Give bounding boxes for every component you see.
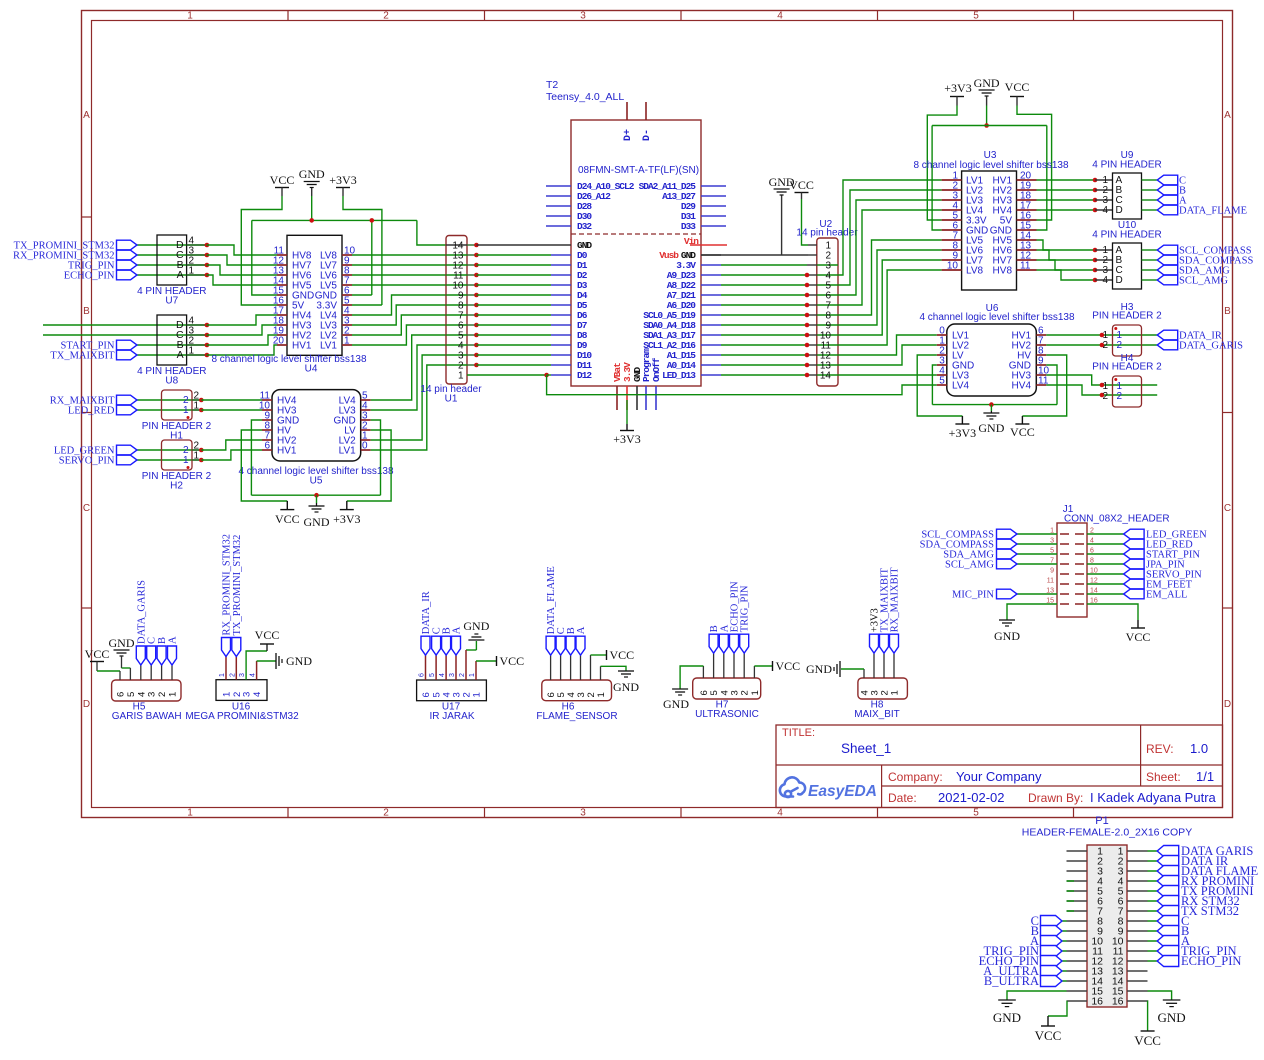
svg-text:D: D <box>1116 205 1123 216</box>
svg-text:B_ULTRA: B_ULTRA <box>984 974 1039 988</box>
svg-text:DATA_GARIS: DATA_GARIS <box>1179 341 1243 352</box>
svg-text:A: A <box>83 110 90 121</box>
svg-text:A: A <box>177 349 184 361</box>
svg-text:4: 4 <box>777 11 783 22</box>
svg-text:SERVO_PIN: SERVO_PIN <box>59 456 115 467</box>
svg-text:EM_ALL: EM_ALL <box>1146 590 1187 601</box>
svg-text:GND: GND <box>109 636 135 650</box>
svg-text:1: 1 <box>183 405 189 416</box>
svg-text:3: 3 <box>580 11 586 22</box>
svg-text:VCC: VCC <box>1005 80 1030 94</box>
svg-text:LV1: LV1 <box>320 341 337 352</box>
svg-text:VCC: VCC <box>789 178 814 192</box>
svg-text:Sheet:: Sheet: <box>1146 770 1181 784</box>
svg-text:A: A <box>576 626 587 634</box>
svg-text:DATA_IR: DATA_IR <box>421 591 432 634</box>
svg-text:3: 3 <box>449 673 456 677</box>
svg-text:LV8: LV8 <box>966 266 983 277</box>
svg-text:U1: U1 <box>445 394 458 405</box>
svg-text:20: 20 <box>273 336 285 347</box>
svg-text:LV4: LV4 <box>952 381 969 392</box>
svg-text:GARIS BAWAH: GARIS BAWAH <box>112 711 182 722</box>
svg-text:MIC_PIN: MIC_PIN <box>952 590 994 601</box>
svg-text:4: 4 <box>1102 205 1108 216</box>
svg-text:GND: GND <box>299 167 325 181</box>
svg-text:GND: GND <box>663 697 689 711</box>
svg-text:Teensy_4.0_ALL: Teensy_4.0_ALL <box>546 91 624 103</box>
svg-text:5: 5 <box>429 673 436 677</box>
svg-text:9: 9 <box>1050 568 1054 575</box>
svg-text:1/1: 1/1 <box>1196 769 1214 784</box>
svg-text:14: 14 <box>820 371 832 382</box>
svg-text:D: D <box>1224 699 1231 710</box>
svg-text:B: B <box>83 306 90 317</box>
svg-text:D33: D33 <box>681 221 696 232</box>
svg-text:LED_RED: LED_RED <box>68 406 115 417</box>
svg-text:1: 1 <box>183 455 189 466</box>
svg-text:3: 3 <box>242 692 253 697</box>
svg-text:LV1: LV1 <box>339 446 356 457</box>
svg-text:4: 4 <box>1102 275 1108 286</box>
svg-text:4 channel logic level shifter: 4 channel logic level shifter bss138 <box>919 312 1075 323</box>
svg-text:REV:: REV: <box>1146 742 1174 756</box>
svg-text:GND: GND <box>1158 1010 1186 1025</box>
svg-text:C: C <box>147 637 158 644</box>
svg-text:TRIG_PIN: TRIG_PIN <box>740 585 751 632</box>
svg-text:+3V3: +3V3 <box>949 426 976 440</box>
svg-text:11: 11 <box>1020 261 1031 272</box>
svg-text:1: 1 <box>472 692 483 697</box>
svg-text:Vusb: Vusb <box>659 250 679 261</box>
svg-text:6: 6 <box>421 692 432 697</box>
svg-text:4: 4 <box>250 673 257 677</box>
svg-text:D: D <box>1116 275 1123 286</box>
svg-text:08FMN-SMT-A-TF(LF)(SN): 08FMN-SMT-A-TF(LF)(SN) <box>578 165 699 176</box>
svg-text:Date:: Date: <box>888 791 917 805</box>
svg-text:HEADER-FEMALE-2.0_2X16 COPY: HEADER-FEMALE-2.0_2X16 COPY <box>1022 827 1192 839</box>
svg-text:2: 2 <box>1102 391 1108 402</box>
svg-text:3: 3 <box>147 692 158 697</box>
svg-text:DATA_GARIS: DATA_GARIS <box>136 580 147 644</box>
svg-text:Drawn By:: Drawn By: <box>1028 791 1083 805</box>
svg-text:4 PIN HEADER: 4 PIN HEADER <box>1092 160 1161 171</box>
svg-text:A: A <box>168 636 179 644</box>
svg-text:GND: GND <box>304 515 330 529</box>
svg-text:Your Company: Your Company <box>956 769 1042 784</box>
svg-text:D-: D- <box>642 129 653 141</box>
svg-text:Company:: Company: <box>888 770 943 784</box>
svg-text:4 PIN HEADER: 4 PIN HEADER <box>1092 230 1161 241</box>
svg-text:C: C <box>1224 503 1231 514</box>
svg-text:SCL_AMG: SCL_AMG <box>1179 276 1228 287</box>
svg-text:2: 2 <box>459 673 466 677</box>
svg-text:+3V3: +3V3 <box>329 173 356 187</box>
svg-text:HV1: HV1 <box>292 341 312 352</box>
svg-text:VCC: VCC <box>275 512 300 526</box>
svg-text:Sheet_1: Sheet_1 <box>841 741 891 756</box>
svg-text:0: 0 <box>362 441 368 452</box>
svg-text:2: 2 <box>1117 340 1123 351</box>
svg-text:1: 1 <box>458 371 464 382</box>
svg-text:TX STM32: TX STM32 <box>1181 904 1239 918</box>
svg-text:1: 1 <box>469 673 476 677</box>
svg-text:GND: GND <box>994 629 1020 643</box>
svg-text:D+: D+ <box>623 129 634 141</box>
svg-text:DATA_FLAME: DATA_FLAME <box>1179 206 1247 217</box>
svg-text:10: 10 <box>947 261 959 272</box>
svg-text:16: 16 <box>1112 996 1124 1008</box>
svg-text:5: 5 <box>126 692 137 697</box>
svg-text:1: 1 <box>344 336 350 347</box>
svg-text:+3V3: +3V3 <box>944 81 971 95</box>
svg-text:H2: H2 <box>170 481 183 492</box>
svg-text:6: 6 <box>419 673 426 677</box>
svg-text:1: 1 <box>187 11 193 22</box>
svg-text:I Kadek Adyana Putra: I Kadek Adyana Putra <box>1090 790 1217 805</box>
svg-text:ULTRASONIC: ULTRASONIC <box>695 709 759 720</box>
svg-text:1: 1 <box>168 692 179 697</box>
svg-text:GND: GND <box>993 1010 1021 1025</box>
svg-text:U5: U5 <box>310 476 323 487</box>
svg-text:TX_PROMINI_STM32: TX_PROMINI_STM32 <box>232 535 243 636</box>
svg-text:8 channel logic level shifter: 8 channel logic level shifter bss138 <box>913 160 1069 171</box>
svg-text:16: 16 <box>1091 996 1103 1008</box>
svg-text:2: 2 <box>157 692 168 697</box>
svg-text:VCC: VCC <box>500 654 525 668</box>
svg-text:TX_MAIXBIT: TX_MAIXBIT <box>50 351 115 362</box>
svg-text:GND: GND <box>286 654 312 668</box>
svg-text:A: A <box>452 626 463 634</box>
svg-text:4: 4 <box>777 808 783 819</box>
svg-text:MAIX_BIT: MAIX_BIT <box>854 709 900 720</box>
svg-text:D32: D32 <box>577 221 592 232</box>
svg-text:1: 1 <box>890 690 901 695</box>
svg-text:GND: GND <box>463 619 489 633</box>
svg-text:D: D <box>83 699 90 710</box>
svg-text:GND: GND <box>978 421 1004 435</box>
svg-text:VCC: VCC <box>1134 1033 1161 1048</box>
svg-text:1: 1 <box>219 673 226 677</box>
svg-text:MEGA PROMINI&STM32: MEGA PROMINI&STM32 <box>185 711 299 722</box>
svg-text:6: 6 <box>116 692 127 697</box>
svg-text:2: 2 <box>229 673 236 677</box>
svg-text:VCC: VCC <box>776 659 801 673</box>
svg-text:VCC: VCC <box>1035 1028 1062 1043</box>
svg-text:A: A <box>1224 110 1231 121</box>
svg-text:1.0: 1.0 <box>1190 741 1208 756</box>
svg-text:2: 2 <box>1117 391 1123 402</box>
svg-text:DATA_FLAME: DATA_FLAME <box>546 566 557 634</box>
svg-text:VCC: VCC <box>610 648 635 662</box>
svg-text:U4: U4 <box>305 364 318 375</box>
svg-text:6: 6 <box>264 441 270 452</box>
svg-text:LED_D13: LED_D13 <box>662 370 696 381</box>
svg-text:GND: GND <box>806 662 832 676</box>
svg-text:3: 3 <box>239 673 246 677</box>
svg-text:2: 2 <box>1102 340 1108 351</box>
svg-text:B: B <box>157 637 168 644</box>
svg-text:+3V3: +3V3 <box>613 432 640 446</box>
svg-text:FLAME_SENSOR: FLAME_SENSOR <box>536 711 617 722</box>
svg-text:HV1: HV1 <box>277 446 297 457</box>
svg-text:B: B <box>1224 306 1231 317</box>
svg-text:VCC: VCC <box>255 628 280 642</box>
svg-text:OnOff: OnOff <box>651 357 662 382</box>
svg-text:A: A <box>177 269 184 281</box>
svg-text:4: 4 <box>252 692 263 697</box>
svg-text:U8: U8 <box>165 376 178 387</box>
svg-text:11: 11 <box>1047 578 1054 585</box>
svg-text:3: 3 <box>580 808 586 819</box>
svg-text:PIN HEADER 2: PIN HEADER 2 <box>1092 362 1162 373</box>
svg-text:5: 5 <box>973 11 979 22</box>
svg-text:TITLE:: TITLE: <box>782 727 815 739</box>
svg-text:+3V3: +3V3 <box>333 512 360 526</box>
svg-text:1: 1 <box>187 808 193 819</box>
svg-text:HV8: HV8 <box>993 266 1013 277</box>
svg-text:RX_MAIXBIT: RX_MAIXBIT <box>890 567 901 632</box>
svg-text:EasyEDA: EasyEDA <box>808 783 877 800</box>
svg-text:5: 5 <box>939 376 945 387</box>
svg-text:C: C <box>83 503 90 514</box>
svg-text:GND: GND <box>974 76 1000 90</box>
svg-text:HV4: HV4 <box>1012 381 1032 392</box>
svg-text:4: 4 <box>439 673 446 677</box>
svg-text:PIN HEADER 2: PIN HEADER 2 <box>1092 311 1162 322</box>
svg-text:2: 2 <box>383 11 389 22</box>
svg-text:5: 5 <box>973 808 979 819</box>
svg-text:VCC: VCC <box>1010 425 1035 439</box>
svg-text:D12: D12 <box>577 370 592 381</box>
svg-text:4: 4 <box>136 692 147 697</box>
svg-text:14 pin header: 14 pin header <box>796 228 858 239</box>
svg-text:1: 1 <box>596 692 607 697</box>
svg-text:T2: T2 <box>546 79 558 91</box>
svg-text:8 channel logic level shifter: 8 channel logic level shifter bss138 <box>211 354 367 365</box>
svg-text:GND: GND <box>613 680 639 694</box>
svg-text:VCC: VCC <box>85 647 110 661</box>
svg-text:VCC: VCC <box>1126 630 1151 644</box>
svg-text:IR JARAK: IR JARAK <box>429 711 474 722</box>
svg-text:VCC: VCC <box>270 173 295 187</box>
svg-text:2021-02-02: 2021-02-02 <box>938 790 1005 805</box>
svg-text:P1: P1 <box>1095 815 1108 827</box>
svg-text:2: 2 <box>383 808 389 819</box>
svg-text:ECHO_PIN: ECHO_PIN <box>1181 954 1241 968</box>
svg-text:U7: U7 <box>165 296 178 307</box>
svg-text:1: 1 <box>750 690 761 695</box>
svg-text:ECHO_PIN: ECHO_PIN <box>64 271 115 282</box>
svg-text:SCL_AMG: SCL_AMG <box>945 560 994 571</box>
